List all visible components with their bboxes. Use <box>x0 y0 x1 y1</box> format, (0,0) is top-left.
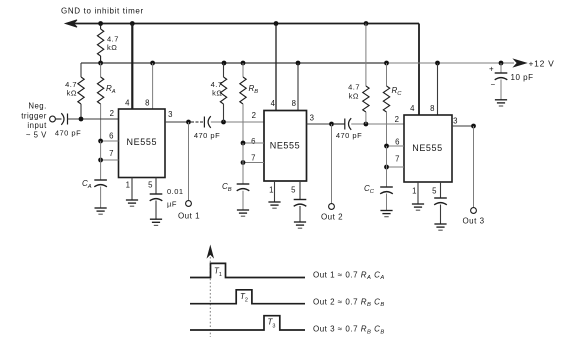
svg-text:8: 8 <box>292 99 297 108</box>
svg-text:3: 3 <box>453 117 458 126</box>
svg-text:8: 8 <box>430 104 435 113</box>
svg-text:8: 8 <box>145 99 150 108</box>
svg-text:Neg.: Neg. <box>28 102 46 111</box>
svg-text:input: input <box>27 121 47 130</box>
svg-text:5: 5 <box>432 187 437 196</box>
svg-text:470 pF: 470 pF <box>194 131 220 140</box>
svg-text:NE555: NE555 <box>270 141 301 151</box>
svg-text:470 pF: 470 pF <box>336 131 362 140</box>
svg-text:GND to inhibit timer: GND to inhibit timer <box>61 7 144 16</box>
svg-text:3: 3 <box>168 110 173 119</box>
svg-text:NE555: NE555 <box>412 143 443 153</box>
svg-text:−: − <box>491 80 496 89</box>
svg-text:7: 7 <box>109 149 114 158</box>
svg-text:0.01: 0.01 <box>167 187 184 196</box>
svg-text:5: 5 <box>148 181 153 190</box>
svg-text:4: 4 <box>125 99 130 108</box>
svg-text:10 pF: 10 pF <box>511 73 534 82</box>
svg-text:2: 2 <box>252 111 257 120</box>
svg-text:2: 2 <box>110 109 115 118</box>
svg-text:6: 6 <box>109 132 114 141</box>
svg-text:1: 1 <box>412 187 417 196</box>
svg-text:kΩ: kΩ <box>212 89 222 98</box>
svg-text:+: + <box>489 65 494 74</box>
svg-text:7: 7 <box>395 155 400 164</box>
svg-text:2: 2 <box>395 115 400 124</box>
svg-text:Out 1: Out 1 <box>178 212 200 221</box>
svg-text:µF: µF <box>167 200 177 209</box>
svg-text:4: 4 <box>271 99 276 108</box>
svg-text:~ 5 V: ~ 5 V <box>26 131 47 140</box>
svg-text:trigger: trigger <box>21 112 47 121</box>
svg-text:6: 6 <box>251 137 256 146</box>
svg-text:6: 6 <box>395 138 400 147</box>
svg-text:3: 3 <box>310 114 315 123</box>
svg-text:kΩ: kΩ <box>349 92 359 101</box>
svg-text:1: 1 <box>126 181 131 190</box>
svg-text:4.7: 4.7 <box>348 83 360 92</box>
svg-text:4: 4 <box>410 104 415 113</box>
svg-text:7: 7 <box>251 154 256 163</box>
svg-text:NE555: NE555 <box>127 137 158 147</box>
svg-text:1: 1 <box>269 186 274 195</box>
svg-text:Out 3: Out 3 <box>462 217 484 226</box>
svg-text:+12 V: +12 V <box>529 59 555 69</box>
svg-text:Out 2: Out 2 <box>321 213 343 222</box>
svg-text:kΩ: kΩ <box>107 43 117 52</box>
svg-text:5: 5 <box>291 186 296 195</box>
svg-text:470 pF: 470 pF <box>55 128 81 137</box>
svg-text:kΩ: kΩ <box>67 89 77 98</box>
